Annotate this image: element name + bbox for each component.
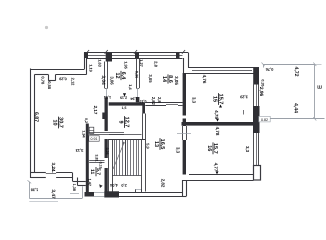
svg-text:Ш: Ш — [317, 85, 322, 90]
svg-text:3,3: 3,3 — [245, 146, 250, 153]
svg-text:4,04: 4,04 — [109, 183, 117, 188]
svg-text:3,04: 3,04 — [100, 75, 106, 85]
svg-text:10: 10 — [51, 119, 57, 125]
svg-text:0,37: 0,37 — [140, 99, 147, 103]
svg-text:0,19: 0,19 — [99, 162, 103, 169]
svg-text:3,05: 3,05 — [148, 74, 153, 83]
svg-text:2,96: 2,96 — [258, 87, 264, 97]
svg-text:2,82: 2,82 — [161, 179, 166, 188]
svg-text:2,8: 2,8 — [157, 97, 162, 103]
svg-text:0,35: 0,35 — [261, 79, 265, 86]
svg-text:3,81: 3,81 — [95, 154, 99, 161]
svg-text:3,3: 3,3 — [192, 97, 197, 104]
svg-text:4,76: 4,76 — [202, 75, 207, 84]
svg-text:2,12: 2,12 — [71, 78, 76, 87]
svg-text:2,8: 2,8 — [154, 61, 159, 67]
svg-text:3,06: 3,06 — [110, 76, 115, 85]
svg-text:3,05: 3,05 — [174, 76, 179, 85]
svg-text:0,28: 0,28 — [105, 148, 109, 155]
svg-text:2,0: 2,0 — [121, 183, 126, 188]
svg-text:1,19: 1,19 — [89, 64, 94, 72]
svg-text:4,78: 4,78 — [215, 127, 220, 136]
svg-text:1,4: 1,4 — [128, 84, 133, 90]
svg-text:3,29: 3,29 — [239, 95, 248, 100]
svg-text:9: 9 — [117, 120, 123, 123]
svg-text:6,87: 6,87 — [33, 112, 39, 122]
svg-text:4,72: 4,72 — [293, 66, 299, 76]
svg-text:1,47: 1,47 — [88, 179, 92, 186]
svg-text:0,76: 0,76 — [265, 67, 274, 72]
svg-text:3,24: 3,24 — [51, 163, 56, 172]
svg-text:1,94: 1,94 — [103, 95, 111, 99]
svg-text:1,63: 1,63 — [98, 59, 103, 67]
svg-text:0,58: 0,58 — [47, 81, 52, 90]
svg-text:0,78: 0,78 — [41, 76, 46, 85]
svg-text:13: 13 — [153, 141, 159, 147]
svg-text:11: 11 — [89, 169, 95, 175]
svg-text:15: 15 — [211, 96, 217, 102]
svg-text:1,94: 1,94 — [129, 97, 137, 101]
svg-text:0.91: 0.91 — [91, 137, 98, 141]
svg-text:0,29: 0,29 — [58, 76, 66, 81]
svg-text:3,3: 3,3 — [176, 147, 181, 154]
svg-text:5,9: 5,9 — [146, 143, 151, 149]
svg-text:2,82: 2,82 — [151, 97, 156, 106]
svg-text:16: 16 — [206, 145, 212, 151]
svg-text:14: 14 — [161, 76, 167, 83]
svg-text:0,36: 0,36 — [134, 71, 138, 78]
svg-text:4,77: 4,77 — [214, 163, 219, 172]
svg-text:4,44: 4,44 — [293, 103, 299, 113]
svg-text:1,95: 1,95 — [124, 61, 129, 69]
svg-text:1,38: 1,38 — [72, 184, 76, 191]
svg-text:2,15: 2,15 — [120, 96, 127, 100]
svg-text:3,47: 3,47 — [50, 189, 56, 199]
svg-text:1,38: 1,38 — [31, 188, 38, 192]
svg-text:1,94: 1,94 — [82, 130, 86, 138]
svg-text:2,17: 2,17 — [93, 106, 98, 115]
svg-text:3,13: 3,13 — [75, 148, 84, 153]
svg-text:4,75: 4,75 — [214, 110, 219, 119]
svg-text:0,2: 0,2 — [84, 118, 88, 123]
svg-text:1,27: 1,27 — [139, 59, 144, 67]
svg-text:1,5: 1,5 — [122, 106, 127, 110]
svg-text:0.82: 0.82 — [261, 118, 268, 122]
